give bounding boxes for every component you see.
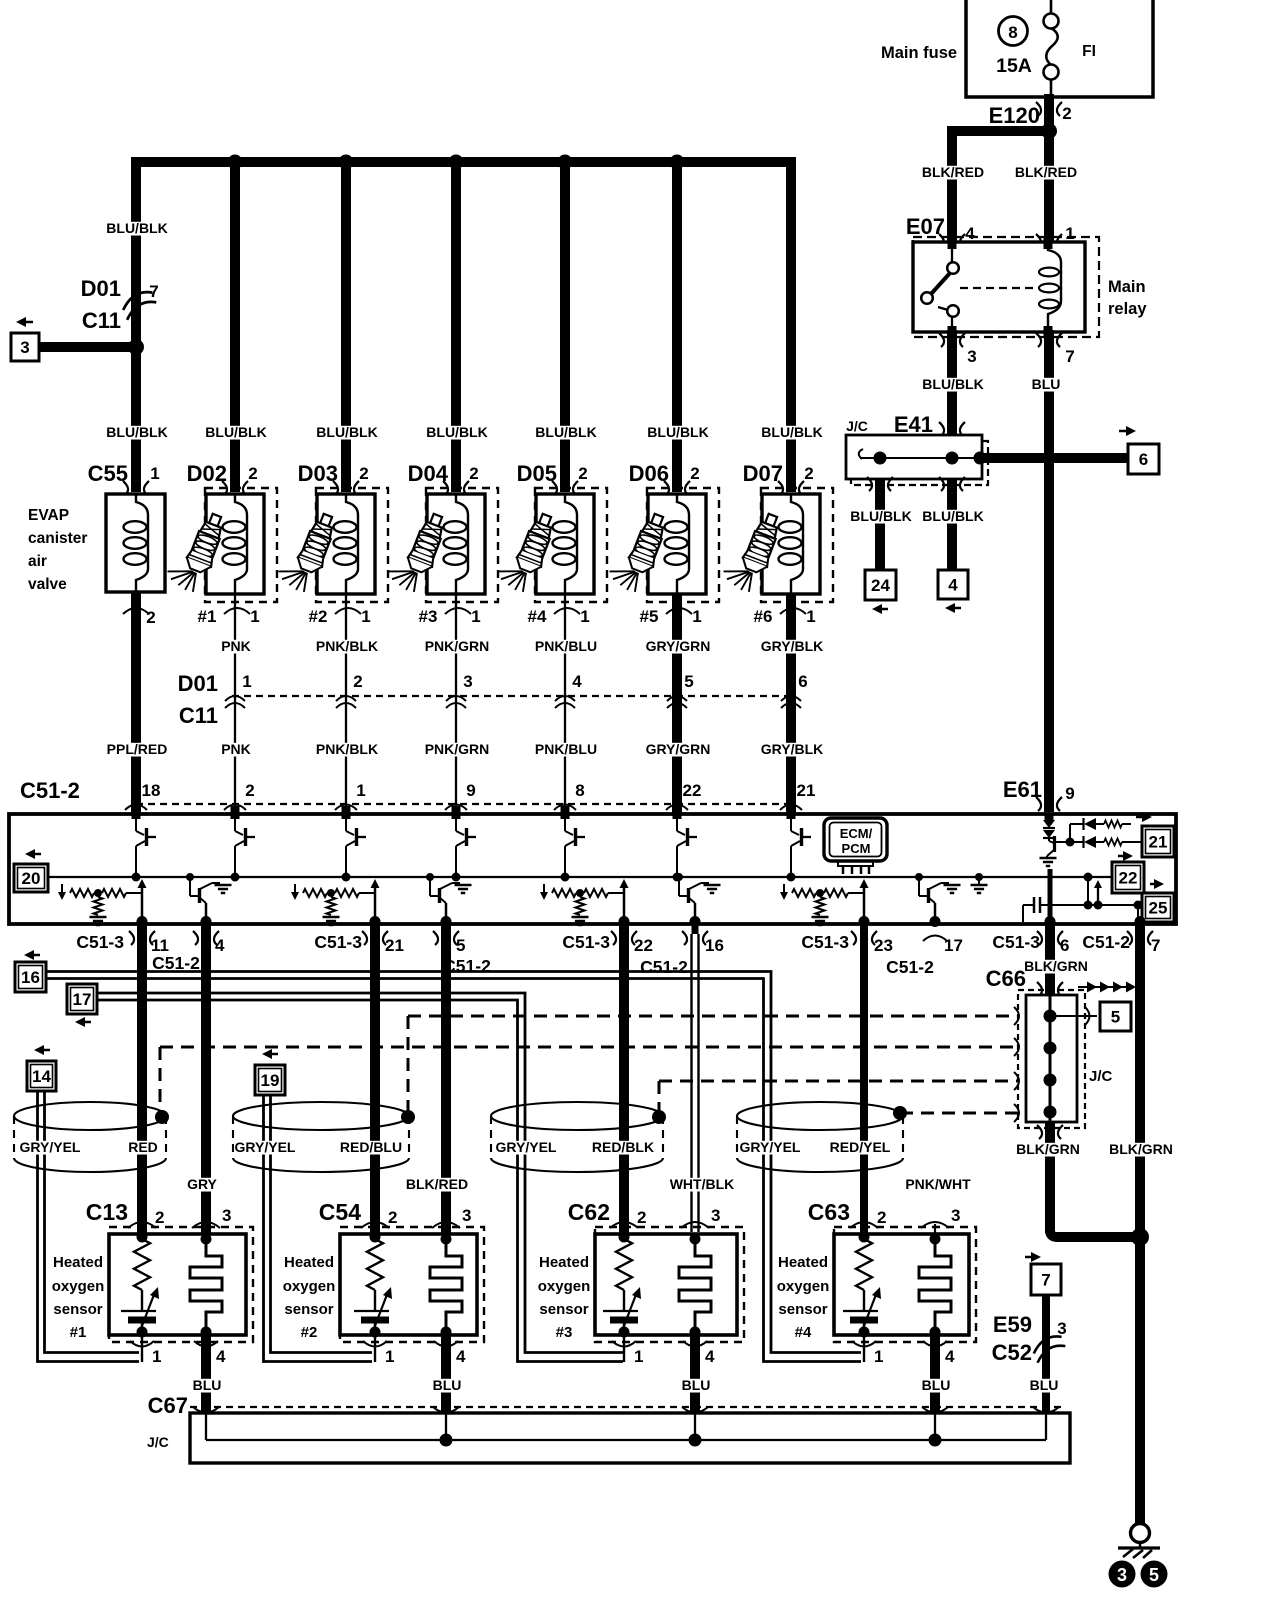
- twisted pair from 17: [97, 993, 623, 1353]
- top bus wire BLU/BLK: [136, 162, 791, 492]
- label BLU/BLK top: [107, 222, 168, 236]
- svg-text:2: 2: [155, 1208, 164, 1227]
- E41 junction dots: [874, 452, 887, 465]
- svg-text:BLK/GRN: BLK/GRN: [1109, 1141, 1173, 1157]
- ECM pin9 transistor: [1048, 838, 1050, 841]
- svg-text:#3: #3: [419, 607, 438, 626]
- C63 battery symbol: [843, 1310, 878, 1312]
- svg-text:23: 23: [874, 936, 893, 955]
- C63 pin 3 stub: [934, 1224, 936, 1240]
- svg-text:BLU: BLU: [922, 1377, 951, 1393]
- wire terminal 3 to column: [39, 342, 136, 352]
- svg-text:PPL/RED: PPL/RED: [107, 741, 168, 757]
- ECM bottom pin dot x=695: [690, 916, 701, 927]
- wire branch to relay pin 4: [947, 126, 1049, 136]
- svg-text:BLU: BLU: [1030, 1377, 1059, 1393]
- wire bus drop x=565: [560, 158, 570, 492]
- terminal box 7: [1031, 1252, 1041, 1262]
- wire injector column x=677 to ECM thick: [672, 594, 682, 814]
- svg-text:22: 22: [683, 781, 702, 800]
- terminal box 24: [865, 570, 896, 600]
- svg-text:17: 17: [944, 936, 963, 955]
- E41 internal bus: [859, 449, 863, 459]
- svg-text:17: 17: [73, 990, 92, 1009]
- svg-text:GRY/GRN: GRY/GRN: [646, 741, 711, 757]
- svg-text:Heated: Heated: [539, 1254, 589, 1271]
- terminal box 5: [1100, 1002, 1131, 1031]
- terminal box 20: [25, 849, 35, 859]
- svg-text:GRY/GRN: GRY/GRN: [646, 638, 711, 654]
- ECM pin stub x=565: [561, 806, 570, 819]
- relay switch contacts: [951, 242, 953, 262]
- junction on bus x=346: [339, 155, 354, 170]
- svg-text:5: 5: [1149, 1565, 1159, 1585]
- svg-text:GRY/YEL: GRY/YEL: [740, 1139, 801, 1155]
- junction on bus x=456: [449, 155, 464, 170]
- fuse F1 wire top: [1050, 0, 1053, 14]
- svg-text:D05: D05: [517, 461, 557, 486]
- svg-text:3: 3: [1057, 1319, 1066, 1338]
- C63 pin 1: [863, 1335, 865, 1362]
- svg-text:sensor: sensor: [778, 1301, 827, 1318]
- C13 pin 4 BLU: [201, 1332, 211, 1413]
- svg-text:Heated: Heated: [53, 1254, 103, 1271]
- shield sensor 3: [491, 1102, 663, 1130]
- C66 junction dots: [1044, 1010, 1057, 1023]
- wire injector column x=791 to ECM thick: [786, 594, 796, 814]
- ECM internal bus line: [48, 876, 1113, 878]
- svg-text:2: 2: [469, 464, 478, 483]
- svg-text:2: 2: [248, 464, 257, 483]
- svg-text:16: 16: [21, 968, 40, 987]
- junction on bus x=677: [670, 155, 685, 170]
- svg-text:RED: RED: [128, 1139, 158, 1155]
- svg-text:1: 1: [1065, 224, 1074, 243]
- svg-text:PNK/GRN: PNK/GRN: [425, 638, 490, 654]
- ECM sensor input transistor pin x=206: [205, 903, 208, 922]
- svg-text:BLU/BLK: BLU/BLK: [647, 424, 708, 440]
- svg-text:22: 22: [1119, 869, 1138, 888]
- shield drain dots: [155, 1110, 169, 1124]
- svg-text:2: 2: [637, 1208, 646, 1227]
- svg-text:BLU/BLK: BLU/BLK: [316, 424, 377, 440]
- ECM bottom pin stubs: [137, 924, 147, 934]
- wire relay pin3 BLU/BLK: [947, 330, 957, 435]
- svg-text:GRY/BLK: GRY/BLK: [761, 638, 823, 654]
- svg-text:25: 25: [1149, 899, 1168, 918]
- svg-text:GRY: GRY: [187, 1176, 217, 1192]
- ECM pin stub x=136: [132, 806, 141, 819]
- svg-text:3: 3: [20, 338, 29, 357]
- svg-text:22: 22: [634, 936, 653, 955]
- svg-text:BLU: BLU: [193, 1377, 222, 1393]
- svg-text:4: 4: [705, 1347, 715, 1366]
- wire bus drop x=235: [230, 158, 240, 492]
- svg-text:canister: canister: [28, 530, 87, 547]
- relay armature dashed link: [960, 287, 1040, 289]
- svg-text:1: 1: [634, 1347, 643, 1366]
- terminal box 16: [24, 950, 34, 960]
- fuse F1 symbol: [1044, 14, 1059, 29]
- ECM heater driver network pin x=142: [141, 886, 144, 922]
- svg-text:21: 21: [797, 781, 816, 800]
- svg-text:1: 1: [692, 607, 701, 626]
- ECM pin stub x=456: [452, 806, 461, 819]
- svg-text:9: 9: [1065, 784, 1074, 803]
- ECM heater driver network pin x=864: [863, 886, 866, 922]
- terminal box 19: [262, 1049, 272, 1059]
- svg-text:1: 1: [874, 1347, 883, 1366]
- svg-text:3: 3: [1117, 1565, 1127, 1585]
- svg-text:Heated: Heated: [778, 1254, 828, 1271]
- svg-text:#4: #4: [528, 607, 547, 626]
- relay coil: [1048, 242, 1061, 332]
- svg-text:2: 2: [1062, 104, 1071, 123]
- svg-text:RED/YEL: RED/YEL: [830, 1139, 891, 1155]
- svg-text:D04: D04: [408, 461, 449, 486]
- svg-text:C51-3: C51-3: [314, 932, 362, 952]
- terminal box 17: [75, 1017, 85, 1027]
- ECM bottom pin dot x=864: [859, 916, 870, 927]
- junction on bus x=565: [558, 155, 573, 170]
- svg-text:4: 4: [215, 936, 225, 955]
- svg-text:BLK/RED: BLK/RED: [922, 164, 984, 180]
- fuse number circle 8: [999, 17, 1028, 46]
- E41 dashed outline: [851, 441, 988, 485]
- C13 pin 1: [141, 1335, 143, 1362]
- heater wires ECM to sensors: [137, 934, 147, 1237]
- svg-text:C55: C55: [88, 461, 128, 486]
- wire bus drop x=346: [341, 158, 351, 492]
- svg-text:2: 2: [146, 608, 155, 627]
- WHT/BLK double wire pin16: [690, 934, 692, 1232]
- svg-text:#1: #1: [198, 607, 217, 626]
- svg-text:2: 2: [359, 464, 368, 483]
- svg-text:D01: D01: [81, 276, 121, 301]
- svg-text:EVAP: EVAP: [28, 507, 69, 524]
- svg-text:1: 1: [806, 607, 815, 626]
- C13 sensing element: [201, 1234, 212, 1245]
- svg-text:GRY/YEL: GRY/YEL: [235, 1139, 296, 1155]
- C63 pin 4 BLU: [930, 1332, 940, 1413]
- relay pins 3 and 7: [939, 333, 944, 347]
- ECM bottom pin dot x=935: [930, 916, 941, 927]
- C66 arrow chain: [1078, 986, 1128, 988]
- C63 heater resistor: [859, 1232, 870, 1243]
- svg-text:relay: relay: [1108, 300, 1147, 318]
- main fuse box: [966, 0, 1153, 97]
- svg-text:C52: C52: [992, 1340, 1032, 1365]
- svg-text:#6: #6: [754, 607, 773, 626]
- svg-text:2: 2: [690, 464, 699, 483]
- svg-text:BLU/BLK: BLU/BLK: [761, 424, 822, 440]
- C62 pin 4 BLU: [690, 1332, 700, 1413]
- svg-text:24: 24: [871, 576, 890, 595]
- junction on bus x=235: [228, 155, 243, 170]
- svg-text:oxygen: oxygen: [283, 1278, 336, 1295]
- svg-text:oxygen: oxygen: [538, 1278, 591, 1295]
- wire relay pin7 BLU: [1044, 330, 1054, 453]
- junction dot: [128, 339, 144, 355]
- svg-text:BLK/RED: BLK/RED: [406, 1176, 468, 1192]
- ECM bottom pin dot x=206: [201, 916, 212, 927]
- svg-text:7: 7: [1065, 347, 1074, 366]
- ECM/PCM monitor icon: [824, 818, 887, 861]
- label BLU/BLK: [923, 378, 984, 392]
- svg-text:sensor: sensor: [539, 1301, 588, 1318]
- svg-text:PNK/BLU: PNK/BLU: [535, 741, 597, 757]
- C54 pin 4 BLU: [441, 1332, 451, 1413]
- junction node at E120: [1041, 123, 1057, 139]
- svg-text:C51-3: C51-3: [562, 932, 610, 952]
- svg-text:1: 1: [580, 607, 589, 626]
- svg-text:FI: FI: [1082, 43, 1096, 60]
- svg-text:3: 3: [951, 1206, 960, 1225]
- ECM sensor input transistor pin x=935: [934, 903, 937, 922]
- ECM injector driver transistor x=235: [234, 814, 236, 831]
- svg-text:2: 2: [388, 1208, 397, 1227]
- svg-text:3: 3: [222, 1206, 231, 1225]
- main ground wire BLK/GRN: [1135, 934, 1145, 1524]
- ECM pin stub x=791: [787, 806, 796, 819]
- main relay box: [913, 242, 1085, 332]
- svg-text:E120: E120: [989, 103, 1040, 128]
- label BLK/RED left: [923, 166, 984, 180]
- shield sensor 1: [14, 1102, 166, 1130]
- label BLK/RED right: [1016, 166, 1077, 180]
- wire labels above sensors: [188, 1178, 215, 1192]
- label BLU E59: [1030, 1379, 1057, 1393]
- svg-text:4: 4: [216, 1347, 226, 1366]
- ECM pin stub x=235: [231, 806, 240, 819]
- ECM thick ground lead pin 6: [1048, 869, 1053, 924]
- svg-text:2: 2: [877, 1208, 886, 1227]
- wire fuse to E120: [1044, 94, 1054, 131]
- svg-text:1: 1: [471, 607, 480, 626]
- svg-text:C51-2: C51-2: [1082, 932, 1130, 952]
- svg-text:BLK/GRN: BLK/GRN: [1016, 1141, 1080, 1157]
- svg-text:J/C: J/C: [1089, 1068, 1113, 1085]
- svg-text:20: 20: [22, 869, 41, 888]
- shield sensor 2: [233, 1102, 409, 1130]
- E41 output marks: [867, 477, 872, 491]
- C62 heater resistor: [619, 1232, 630, 1243]
- svg-text:BLU/BLK: BLU/BLK: [535, 424, 596, 440]
- ECM diode resistor branch to 21: [1084, 836, 1096, 848]
- svg-text:21: 21: [1149, 833, 1168, 852]
- svg-text:15A: 15A: [996, 55, 1032, 77]
- svg-text:Heated: Heated: [284, 1254, 334, 1271]
- svg-text:D07: D07: [743, 461, 783, 486]
- svg-text:BLU/BLK: BLU/BLK: [106, 424, 167, 440]
- svg-text:8: 8: [575, 781, 584, 800]
- svg-text:5: 5: [1111, 1008, 1120, 1027]
- C66 line to terminal 5: [1050, 1015, 1097, 1017]
- terminal box 21: [1142, 812, 1152, 822]
- main relay dashed outline: [913, 237, 1099, 337]
- svg-text:2: 2: [353, 672, 362, 691]
- svg-text:D06: D06: [629, 461, 669, 486]
- svg-text:BLU/BLK: BLU/BLK: [922, 508, 983, 524]
- svg-text:BLU: BLU: [1032, 376, 1061, 392]
- terminal box 14: [34, 1045, 44, 1055]
- svg-text:C54: C54: [319, 1199, 361, 1225]
- svg-text:5: 5: [456, 936, 465, 955]
- ECM heater driver network pin x=624: [623, 886, 626, 922]
- svg-text:3: 3: [463, 672, 472, 691]
- svg-text:C51-2: C51-2: [20, 778, 80, 803]
- svg-text:#2: #2: [309, 607, 328, 626]
- relay pin stubs: [948, 236, 957, 249]
- svg-text:WHT/BLK: WHT/BLK: [670, 1176, 735, 1192]
- svg-text:#3: #3: [556, 1324, 573, 1341]
- terminal box 6: [1126, 426, 1136, 436]
- svg-text:16: 16: [705, 936, 724, 955]
- svg-text:PNK/GRN: PNK/GRN: [425, 741, 490, 757]
- C67 entry marks: [193, 1407, 219, 1413]
- svg-text:1: 1: [356, 781, 365, 800]
- svg-text:C51-3: C51-3: [992, 932, 1040, 952]
- C13 battery symbol: [121, 1310, 156, 1312]
- svg-text:1: 1: [242, 672, 251, 691]
- svg-text:1: 1: [250, 607, 259, 626]
- C62 pin 1: [623, 1335, 625, 1362]
- svg-text:PNK/BLK: PNK/BLK: [316, 741, 378, 757]
- C67 internal bus: [205, 1413, 207, 1440]
- wire E41 to 24 BLU/BLK: [875, 479, 885, 570]
- wire E120 to relay pin 1: [1044, 127, 1054, 246]
- svg-text:8: 8: [1008, 23, 1017, 42]
- svg-text:4: 4: [572, 672, 582, 691]
- svg-text:E41: E41: [894, 412, 933, 437]
- ECM injector driver transistor x=346: [345, 814, 347, 831]
- ECM diode resistor branch upper: [1055, 841, 1083, 843]
- C54 pin 1: [374, 1335, 376, 1362]
- shield drain dashed to C66 row1: [407, 1016, 410, 1112]
- wire injector column x=235 to ECM: [234, 594, 236, 814]
- C54 variable arrow: [373, 1292, 388, 1331]
- svg-text:oxygen: oxygen: [52, 1278, 105, 1295]
- C54 heater resistor: [370, 1232, 381, 1243]
- svg-text:1: 1: [150, 464, 159, 483]
- svg-text:oxygen: oxygen: [777, 1278, 830, 1295]
- ECM bottom pin dot x=375: [370, 916, 381, 927]
- svg-text:4: 4: [456, 1347, 466, 1366]
- shield labels: [20, 1141, 81, 1155]
- heated oxygen sensor C54 outline: [340, 1227, 484, 1342]
- shield drain dashed to C66 row3: [658, 1081, 661, 1112]
- wire injector column x=346 to ECM: [345, 594, 347, 814]
- svg-text:E59: E59: [993, 1312, 1032, 1337]
- svg-text:#2: #2: [301, 1324, 318, 1341]
- wire bus drop x=677: [672, 158, 682, 492]
- C13 variable arrow: [140, 1292, 155, 1331]
- C66 output BLK/GRN: [1045, 1122, 1055, 1233]
- C54 sensing element: [441, 1234, 452, 1245]
- ECM/PCM main box: [9, 814, 1176, 924]
- svg-text:GRY/YEL: GRY/YEL: [496, 1139, 557, 1155]
- ECM pin9 input diodes: [1045, 814, 1054, 820]
- svg-text:BLU/BLK: BLU/BLK: [850, 508, 911, 524]
- ECM extra ground near pin 17: [978, 877, 980, 884]
- svg-text:21: 21: [385, 936, 404, 955]
- svg-text:5: 5: [684, 672, 693, 691]
- ECM pin stub x=346: [342, 806, 351, 819]
- wire E41 to 4 BLU/BLK: [947, 479, 957, 570]
- svg-text:4: 4: [945, 1347, 955, 1366]
- ECM capacitor branch: [1084, 873, 1093, 882]
- ECM injector driver transistor x=456: [455, 814, 457, 831]
- ECM sensor input transistor pin x=695: [694, 903, 697, 922]
- svg-text:C51-2: C51-2: [640, 957, 688, 977]
- svg-text:3: 3: [967, 347, 976, 366]
- svg-text:BLU/BLK: BLU/BLK: [922, 376, 983, 392]
- twisted pair from 14: [38, 1091, 140, 1362]
- svg-text:ECM/: ECM/: [840, 826, 873, 841]
- ECM sensor input transistor pin x=446: [445, 903, 448, 922]
- svg-text:3: 3: [711, 1206, 720, 1225]
- svg-text:C51-3: C51-3: [801, 932, 849, 952]
- wire 7 to E59: [1042, 1295, 1050, 1413]
- wire bus drop x=456: [451, 158, 461, 492]
- ECM injector driver transistor x=677: [676, 814, 678, 831]
- svg-text:BLU/BLK: BLU/BLK: [106, 220, 167, 236]
- labels wire colors above D01 row: [222, 640, 249, 654]
- svg-text:BLU/BLK: BLU/BLK: [205, 424, 266, 440]
- C54 battery symbol: [354, 1310, 389, 1312]
- svg-text:BLU/BLK: BLU/BLK: [426, 424, 487, 440]
- label BLU: [1032, 378, 1059, 392]
- C62 sensing element: [690, 1234, 701, 1245]
- svg-text:D03: D03: [298, 461, 338, 486]
- svg-text:valve: valve: [28, 576, 67, 593]
- svg-text:PNK: PNK: [221, 741, 251, 757]
- svg-text:C11: C11: [82, 308, 121, 333]
- twisted pair from 19: [264, 1095, 373, 1362]
- svg-text:#1: #1: [70, 1324, 87, 1341]
- svg-text:#4: #4: [795, 1324, 812, 1341]
- svg-text:D02: D02: [187, 461, 227, 486]
- wire E41 to terminal 6: [978, 453, 1129, 463]
- ECM bottom pin dot x=624: [619, 916, 630, 927]
- svg-text:6: 6: [798, 672, 807, 691]
- heated oxygen sensor C63 outline: [834, 1227, 976, 1342]
- svg-text:#5: #5: [640, 607, 659, 626]
- svg-text:PNK/BLK: PNK/BLK: [316, 638, 378, 654]
- svg-text:PNK/WHT: PNK/WHT: [905, 1176, 971, 1192]
- C66 entry marks: [1014, 1007, 1019, 1025]
- svg-text:PNK/BLU: PNK/BLU: [535, 638, 597, 654]
- svg-text:Main: Main: [1108, 278, 1146, 296]
- svg-text:6: 6: [1139, 450, 1148, 469]
- shield drain dashed to C66 row2: [159, 1047, 162, 1112]
- svg-text:1: 1: [385, 1347, 394, 1366]
- svg-text:6: 6: [1060, 936, 1069, 955]
- E41 box: [846, 435, 982, 479]
- terminal box 25: [1154, 879, 1164, 889]
- C62 variable arrow: [622, 1292, 637, 1331]
- terminal box 22: [1123, 851, 1133, 861]
- svg-text:sensor: sensor: [53, 1301, 102, 1318]
- svg-text:RED/BLU: RED/BLU: [340, 1139, 402, 1155]
- svg-text:C67: C67: [148, 1393, 188, 1418]
- C62 battery symbol: [603, 1310, 638, 1312]
- svg-text:BLK/RED: BLK/RED: [1015, 164, 1077, 180]
- svg-text:14: 14: [32, 1067, 51, 1086]
- wire BLU main down to E61: [1044, 458, 1054, 812]
- ECM injector driver transistor x=565: [564, 814, 566, 831]
- twisted pair from 16: [46, 972, 861, 1353]
